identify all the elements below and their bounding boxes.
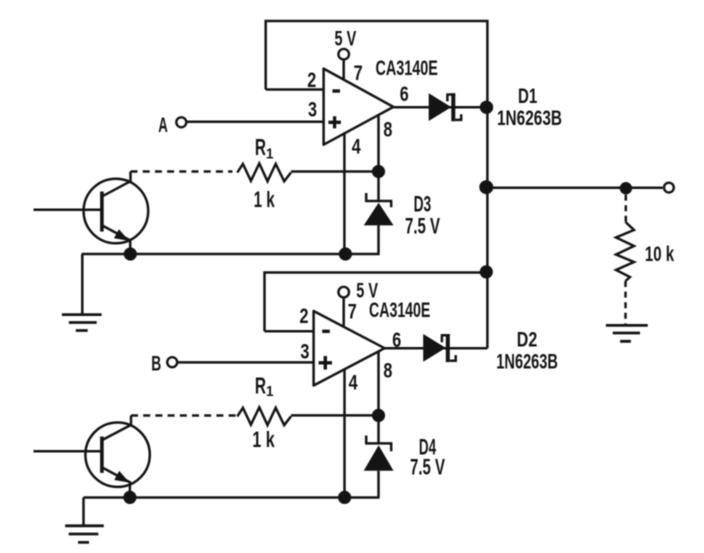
svg-text:8: 8	[383, 359, 392, 383]
svg-text:2: 2	[307, 68, 316, 92]
svg-text:8: 8	[383, 117, 392, 141]
svg-text:7.5 V: 7.5 V	[410, 455, 445, 480]
svg-text:CA3140E: CA3140E	[369, 298, 430, 322]
svg-text:7: 7	[354, 61, 363, 85]
svg-text:A: A	[158, 113, 168, 137]
svg-text:2: 2	[300, 304, 309, 328]
svg-text:D1: D1	[518, 83, 537, 107]
svg-text:D2: D2	[517, 327, 537, 351]
svg-text:1: 1	[266, 146, 274, 163]
svg-text:R: R	[255, 374, 266, 400]
svg-text:7: 7	[348, 299, 357, 323]
svg-text:10 k: 10 k	[645, 241, 675, 265]
svg-text:R: R	[255, 135, 266, 161]
svg-text:3: 3	[300, 340, 309, 364]
svg-text:1 k: 1 k	[252, 429, 275, 453]
svg-text:6: 6	[392, 328, 401, 352]
svg-text:4: 4	[352, 134, 361, 158]
svg-text:6: 6	[400, 82, 409, 106]
svg-text:4: 4	[349, 370, 358, 394]
svg-text:D3: D3	[414, 191, 432, 216]
svg-text:B: B	[151, 352, 161, 376]
svg-text:1N6263B: 1N6263B	[496, 350, 558, 373]
svg-text:3: 3	[308, 98, 317, 122]
svg-text:1N6263B: 1N6263B	[497, 105, 562, 129]
svg-text:CA3140E: CA3140E	[376, 55, 438, 80]
svg-text:1: 1	[266, 383, 274, 400]
svg-text:5 V: 5 V	[335, 27, 357, 50]
svg-text:7.5 V: 7.5 V	[405, 213, 440, 238]
svg-text:1 k: 1 k	[254, 189, 275, 213]
